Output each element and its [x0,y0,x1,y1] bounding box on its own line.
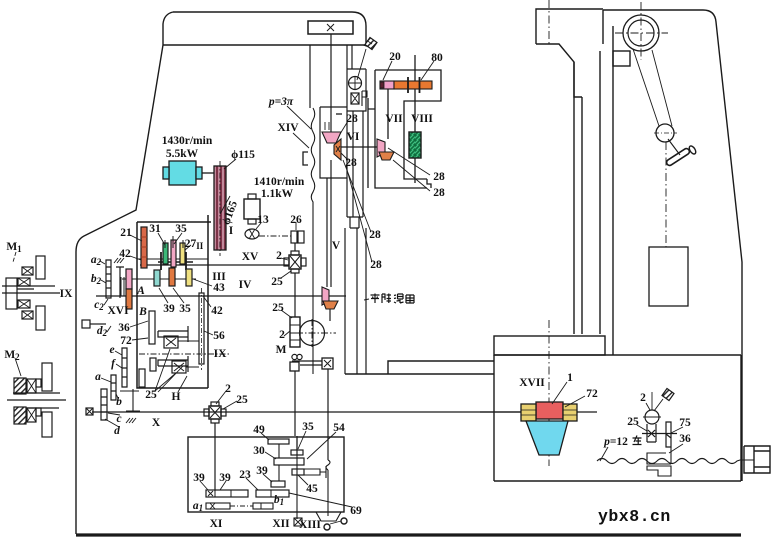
node double bars [121,277,124,296]
svg-text:35: 35 [179,303,191,315]
svg-text:d2: d2 [97,325,108,338]
clutch M1 center xbox upper [18,278,30,286]
node clutch xbox [351,93,359,104]
gear B orange on XVI [126,289,132,309]
gear rack a2-d2 ladder [106,260,111,298]
gear 35 lower orange [169,268,175,286]
gear e/f bar [122,348,127,387]
gear XI left bar [206,490,248,497]
svg-text:25: 25 [271,276,283,288]
svg-text:VIII: VIII [411,113,433,125]
node clutch symbol right of b [120,389,140,412]
gear 39 small on XII [271,481,285,487]
node 56 centerline [201,288,203,370]
clutch M1 upper rect [36,256,45,279]
wire XV vertical down to M [294,273,296,317]
knee verticals [345,228,366,374]
svg-text:23: 23 [239,469,251,481]
wire label leaders bottom box [200,431,336,490]
gear A pink on XVI [126,269,132,289]
table right bracket [744,446,770,473]
gear yellow shaft III right [186,269,192,286]
wire shaft VIII vertical [414,55,416,183]
svg-text:36: 36 [118,322,130,334]
wire shaft XII vertical [296,437,298,519]
gear spindle big circle [300,321,325,346]
svg-text:25: 25 [272,302,284,314]
gear 35 upper [171,240,176,267]
wire shaft 49-30 [278,444,280,481]
node bell clutch [316,512,341,521]
svg-text:31: 31 [149,223,161,235]
svg-text:XII: XII [272,518,290,530]
wire label leaders cyl [364,299,369,300]
svg-text:M1: M1 [6,241,22,254]
speed gearbox housing [137,215,211,388]
svg-text:28: 28 [345,157,357,169]
wire shaft III [122,278,196,280]
wavy screw XIV [311,108,315,374]
svg-text:28: 28 [346,113,358,125]
svg-text:2: 2 [225,383,231,395]
gear 23 bar [256,490,289,497]
svg-text:b2: b2 [91,273,102,286]
node 45 arm [304,466,326,478]
svg-text:IV: IV [239,279,252,291]
label zuo hanzi [633,436,642,445]
svg-text:b1: b1 [274,494,284,507]
bevel VII pink vertical [377,139,385,157]
H coupling bars [150,358,156,371]
svg-text:35: 35 [302,421,314,433]
wire label leaders gearbox [130,233,213,340]
H variator bracket upper [158,326,188,342]
svg-text:39: 39 [256,465,268,477]
svg-text:M2: M2 [4,349,20,362]
svg-text:a: a [95,371,101,383]
svg-text:IX: IX [60,288,73,300]
wire label leaders small letters [100,261,122,427]
svg-text:ybx8.cn: ybx8.cn [598,507,671,526]
node T-bar [116,267,124,298]
svg-text:28: 28 [433,171,445,183]
gear M clutch rect [290,317,300,347]
clutch M1 upper xbox [22,267,33,275]
gear b1 bar [253,503,273,509]
svg-text:20: 20 [389,51,401,63]
clutch M2 upper tall rect [42,363,52,391]
svg-text:56: 56 [213,330,225,342]
column guide strip [574,62,582,334]
wire shaft V vertical [327,160,331,287]
svg-text:39: 39 [163,303,175,315]
node pulley centerline [219,161,221,256]
base bottom line [76,533,741,536]
gear a1 bar [206,503,230,509]
feed gearbox XI housing [188,437,344,512]
gear 30/35 wide bar [274,458,304,465]
right column outline [603,10,742,481]
motor M main 5.5kW [169,161,196,185]
svg-text:80: 80 [431,52,443,64]
wire bevel to spindle [329,309,331,321]
svg-text:72: 72 [120,335,132,347]
bevel VII orange horizontal [379,152,394,160]
gear 31 [163,243,168,264]
H variator box1 [164,336,178,348]
node minus tick [336,113,342,115]
svg-text:ϕ115: ϕ115 [231,149,255,161]
wire motor to pulley [202,172,214,174]
svg-text:13: 13 [257,214,269,226]
belt pulley stack [214,166,226,250]
svg-text:25: 25 [236,394,248,406]
gear cone cyan [526,421,568,455]
gearbox VI small box [320,107,347,178]
bevel V orange horizontal [323,301,338,309]
svg-text:B: B [138,306,147,318]
column small block [613,51,630,66]
handle switch table [662,389,674,401]
gear 36/72 bar [149,311,155,344]
node shaft X left end [86,408,93,415]
wire p=12 leader [600,447,608,461]
svg-text:28: 28 [369,229,381,241]
svg-text:35: 35 [175,223,187,235]
bevel VI orange right [334,139,341,160]
wire shaft X [92,411,597,413]
svg-text:1430r/min: 1430r/min [162,135,213,147]
coupling 26 [291,231,297,243]
wire leader 25 75 36 [637,425,683,453]
wire shaft X into table [480,411,521,413]
gear 49 bar [268,439,289,444]
svg-text:XIV: XIV [277,122,299,134]
node M bearings [292,354,297,359]
wire XII vertical long [295,371,297,455]
head ram block [536,9,603,97]
gear 54 coupling small [291,450,303,455]
gear 80 orange section [394,81,432,89]
gear 39 lower teal [154,270,160,286]
gear hatched green [409,132,421,158]
svg-text:27II: 27II [185,238,204,251]
node yellow block left [521,404,536,421]
wire arm vertical long [327,369,329,460]
svg-text:75: 75 [679,417,691,429]
gear 42/56 long vertical [199,293,204,364]
node XVII centerline [548,320,550,466]
H variator bracket lower [158,356,188,372]
svg-text:5.5kW: 5.5kW [166,148,199,160]
wire shaft II [137,258,208,260]
node claw upper [647,447,671,464]
wire leader 2 table [646,403,650,410]
handle column crank [668,139,680,155]
wire leader 28 diagonals [343,148,430,262]
wire M1 leader [13,252,16,262]
node bracket clip [303,152,308,165]
svg-text:21: 21 [120,227,132,239]
clutch M2 upper xbox [27,379,36,393]
svg-text:28: 28 [433,187,445,199]
svg-text:1.1kW: 1.1kW [261,188,294,200]
label balance cylinder hanzi ping [371,294,415,304]
svg-text:a2: a2 [91,254,102,267]
svg-text:p=12: p=12 [603,436,628,448]
svg-text:43: 43 [213,282,225,294]
saddle strip [494,336,605,355]
svg-text:b: b [116,396,122,408]
wire down to XV joint [294,243,296,251]
node handwheel circle [645,410,659,424]
svg-text:I: I [229,225,234,237]
wire shaft VI horizontal [341,146,377,148]
svg-text:39: 39 [219,472,231,484]
svg-text:54: 54 [333,422,345,434]
svg-text:XVI: XVI [107,305,129,317]
wire shaft XV [140,264,289,266]
svg-text:2: 2 [279,329,285,341]
node bell circles [324,524,330,530]
wire label leaders H [155,349,187,392]
node tick marks above bevel [325,122,329,130]
node m hatch lower [126,418,136,423]
machine body left profile [76,12,173,534]
handle switch top [365,38,377,50]
wire XIII vertical [327,470,329,516]
clutch M2 lower hatched [14,407,26,424]
node bar ticks [408,77,420,93]
head top beam [163,12,366,45]
svg-text:VII: VII [385,113,403,125]
svg-text:45: 45 [306,483,318,495]
svg-text:IX: IX [214,348,227,360]
wire shaft VII vertical [387,89,389,139]
spindle housing upper [347,69,366,111]
wire shaft IV [96,295,346,297]
gear 13 bevel ellipse [245,229,259,239]
svg-text:1: 1 [567,372,573,384]
node column centerline [548,0,550,44]
wire M2 leader [15,358,21,376]
svg-text:69: 69 [350,505,362,517]
svg-text:e: e [109,344,114,356]
gear c/d bar [101,389,107,420]
svg-text:XI: XI [210,518,223,530]
node counterweight [649,247,688,306]
svg-text:M: M [276,344,287,356]
feed box housing [368,70,441,188]
wire leadscrew wavy [597,459,754,464]
clutch M2 upper hatched [14,378,26,394]
gear worm wheel red [536,402,563,419]
svg-text:a1: a1 [193,500,203,513]
wire leader 69 [289,493,352,507]
gear 20 pink section [380,81,394,89]
svg-text:39: 39 [193,472,205,484]
clutch M1 lower xbox [22,311,33,319]
wire belt tangents [633,49,672,126]
node spring hook [326,460,330,470]
node yellow block right [563,404,577,421]
wire IX centerline dashdot [139,353,230,355]
svg-text:p=3π: p=3π [268,96,294,108]
svg-text:36: 36 [679,433,691,445]
wire M2 shaft lines [7,393,66,408]
svg-text:XVII: XVII [519,377,545,389]
wire label leaders top [220,61,434,214]
bevel VI pink top [322,132,341,143]
universal joint 2 on X [209,406,221,419]
wire label leaders XV M [281,258,292,336]
bevel V pink vertical [322,287,329,305]
svg-text:42: 42 [211,305,223,317]
node nut bar [642,422,677,447]
wire dashdot to coupling 26 [259,235,291,237]
gear a/b bar [111,375,116,400]
svg-text:c2: c2 [94,299,104,312]
svg-text:2: 2 [640,392,646,404]
node XIII xbox [294,518,302,526]
wire label leaders X joint [216,391,237,409]
svg-text:26: 26 [290,214,302,226]
node pin below [647,424,656,442]
svg-text:d: d [114,425,120,437]
wire shaft IX left [2,286,60,293]
svg-text:49: 49 [253,424,265,436]
clutch M1 center xbox lower [18,300,30,308]
node xvi left square [82,320,90,328]
node M arm lever [292,361,322,365]
wire label leaders feed motor [256,222,296,230]
wire XI vertical from joint [214,423,216,491]
gear 27 [180,243,185,264]
spindle sleeve strip [347,111,363,228]
knee bottom step [345,361,494,374]
clutch M1 left rect [6,278,17,309]
coupling ticks shaft II [161,252,186,270]
column front lines [600,26,613,355]
table big box [494,355,741,481]
svg-text:25: 25 [145,389,157,401]
svg-text:42: 42 [119,248,131,260]
node m hatch upper [114,258,124,263]
svg-text:30: 30 [253,445,265,457]
wire a1-b1 dashdot [230,505,253,507]
clutch M1 lower rect [36,306,45,330]
pulley small circle [656,124,674,142]
clutch M2 lower tall rect [42,412,52,437]
svg-text:X: X [152,417,161,429]
svg-text:A: A [136,285,145,297]
H variator box2 [172,361,186,373]
universal joint 2 on XV [289,255,301,269]
node top switch rect [308,21,353,34]
clutch M2 lower xbox [27,408,36,422]
svg-text:25: 25 [627,416,639,428]
wire verticals from beam [310,34,352,132]
wire leader 1 and 72 [552,382,585,407]
svg-text:f: f [111,358,116,370]
motor feed 1.1kW [244,199,260,219]
svg-text:XV: XV [242,251,259,263]
node flag lever [362,91,367,106]
svg-text:VI: VI [347,131,360,143]
svg-text:28: 28 [370,259,382,271]
node claw lower [647,466,671,476]
node clutch circle [349,77,362,90]
gear 21/42 on shaft I [141,227,147,268]
wire chain centerline [665,142,667,247]
svg-text:72: 72 [586,388,598,400]
wire leader 45 [298,475,308,485]
pulley big circle [623,15,659,51]
svg-text:1410r/min: 1410r/min [254,176,305,188]
svg-text:V: V [332,240,341,252]
svg-text:XIII: XIII [299,519,321,531]
svg-text:c: c [116,413,121,425]
gear 45 bar [292,469,304,475]
svg-text:2: 2 [276,250,282,262]
svg-text:H: H [172,391,181,403]
